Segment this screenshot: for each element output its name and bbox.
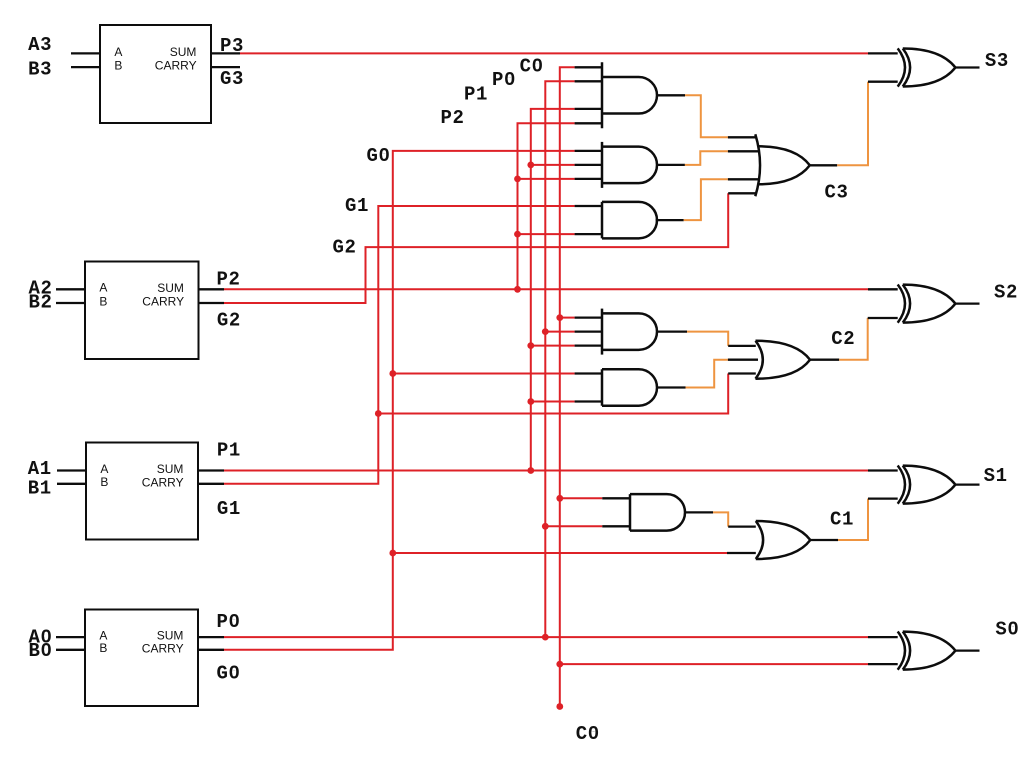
svg-text:A3: A3 (28, 34, 52, 56)
svg-text:CARRY: CARRY (142, 295, 184, 309)
svg-text:SUM: SUM (157, 281, 184, 295)
svg-text:P1: P1 (464, 83, 488, 105)
svg-text:P3: P3 (220, 35, 244, 57)
svg-text:P1: P1 (217, 439, 241, 461)
svg-text:G3: G3 (220, 68, 244, 90)
svg-text:B1: B1 (28, 478, 52, 500)
svg-text:G0: G0 (217, 663, 241, 685)
svg-text:B: B (99, 641, 107, 655)
svg-text:S0: S0 (995, 619, 1019, 641)
svg-text:C2: C2 (831, 328, 855, 350)
svg-text:G1: G1 (345, 195, 369, 217)
svg-text:CARRY: CARRY (155, 59, 197, 73)
svg-text:P0: P0 (492, 69, 516, 91)
svg-text:A: A (100, 462, 108, 476)
svg-text:P2: P2 (441, 107, 465, 129)
svg-text:C3: C3 (825, 182, 849, 204)
svg-text:B3: B3 (28, 59, 52, 81)
svg-text:C1: C1 (830, 508, 854, 530)
svg-text:S2: S2 (994, 282, 1018, 304)
svg-text:B0: B0 (29, 640, 53, 662)
svg-text:S1: S1 (984, 465, 1008, 487)
svg-text:CARRY: CARRY (142, 475, 184, 489)
svg-text:SUM: SUM (170, 45, 197, 59)
svg-text:CARRY: CARRY (142, 641, 184, 655)
svg-text:C0: C0 (520, 55, 544, 77)
svg-text:G2: G2 (217, 310, 241, 332)
svg-text:G2: G2 (333, 237, 357, 259)
svg-text:P2: P2 (217, 269, 241, 291)
svg-text:SUM: SUM (157, 462, 184, 476)
svg-text:A: A (114, 45, 122, 59)
svg-text:B: B (114, 59, 122, 73)
svg-text:B: B (99, 294, 107, 308)
svg-text:B: B (100, 475, 108, 489)
svg-text:B2: B2 (29, 291, 53, 313)
svg-text:C0: C0 (576, 723, 600, 745)
svg-text:S3: S3 (985, 50, 1009, 72)
svg-text:P0: P0 (217, 611, 241, 633)
svg-text:G1: G1 (217, 498, 241, 520)
svg-text:A: A (99, 281, 107, 295)
svg-text:G0: G0 (367, 145, 391, 167)
